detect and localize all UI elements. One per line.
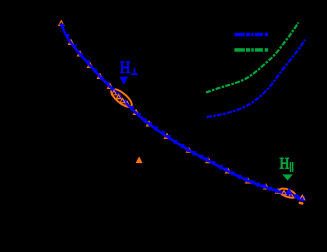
legend: blue dash-dot handle <box>234 33 268 37</box>
blue dashed fit curve (rising to upper right) <box>207 40 305 118</box>
main Hc2 curve (thick solid blue) <box>62 25 305 199</box>
data markers (open orange triangles) under main curve <box>59 21 281 194</box>
highlight ellipse near curve end <box>278 187 297 200</box>
small blue triangle bump near end <box>285 188 292 195</box>
H-parallel annotation text (green) <box>280 158 294 172</box>
isolated filled orange triangle <box>136 156 143 163</box>
highlight ellipse (kink region, tilted along curve) <box>109 86 135 110</box>
perpendicular subscript <box>134 68 136 74</box>
blue data point markers along main curve <box>59 24 306 201</box>
parallel subscript: two bars <box>290 162 292 172</box>
end cluster markers over line <box>282 190 305 204</box>
legend: green dash-dot handle <box>234 48 268 52</box>
H glyph (serif, bold), hand drawn <box>120 61 125 62</box>
H glyph (serif, bold), hand drawn <box>280 158 284 159</box>
orange marker bits over the kink ellipse region <box>112 91 125 103</box>
blue arrow head pointing down to curve <box>120 77 129 85</box>
green dashed fit curve (rising to upper right) <box>206 23 299 93</box>
green arrow head pointing down <box>282 174 292 180</box>
H-perp annotation text (blue) <box>120 61 138 75</box>
short blue tail at curve end <box>298 199 304 201</box>
